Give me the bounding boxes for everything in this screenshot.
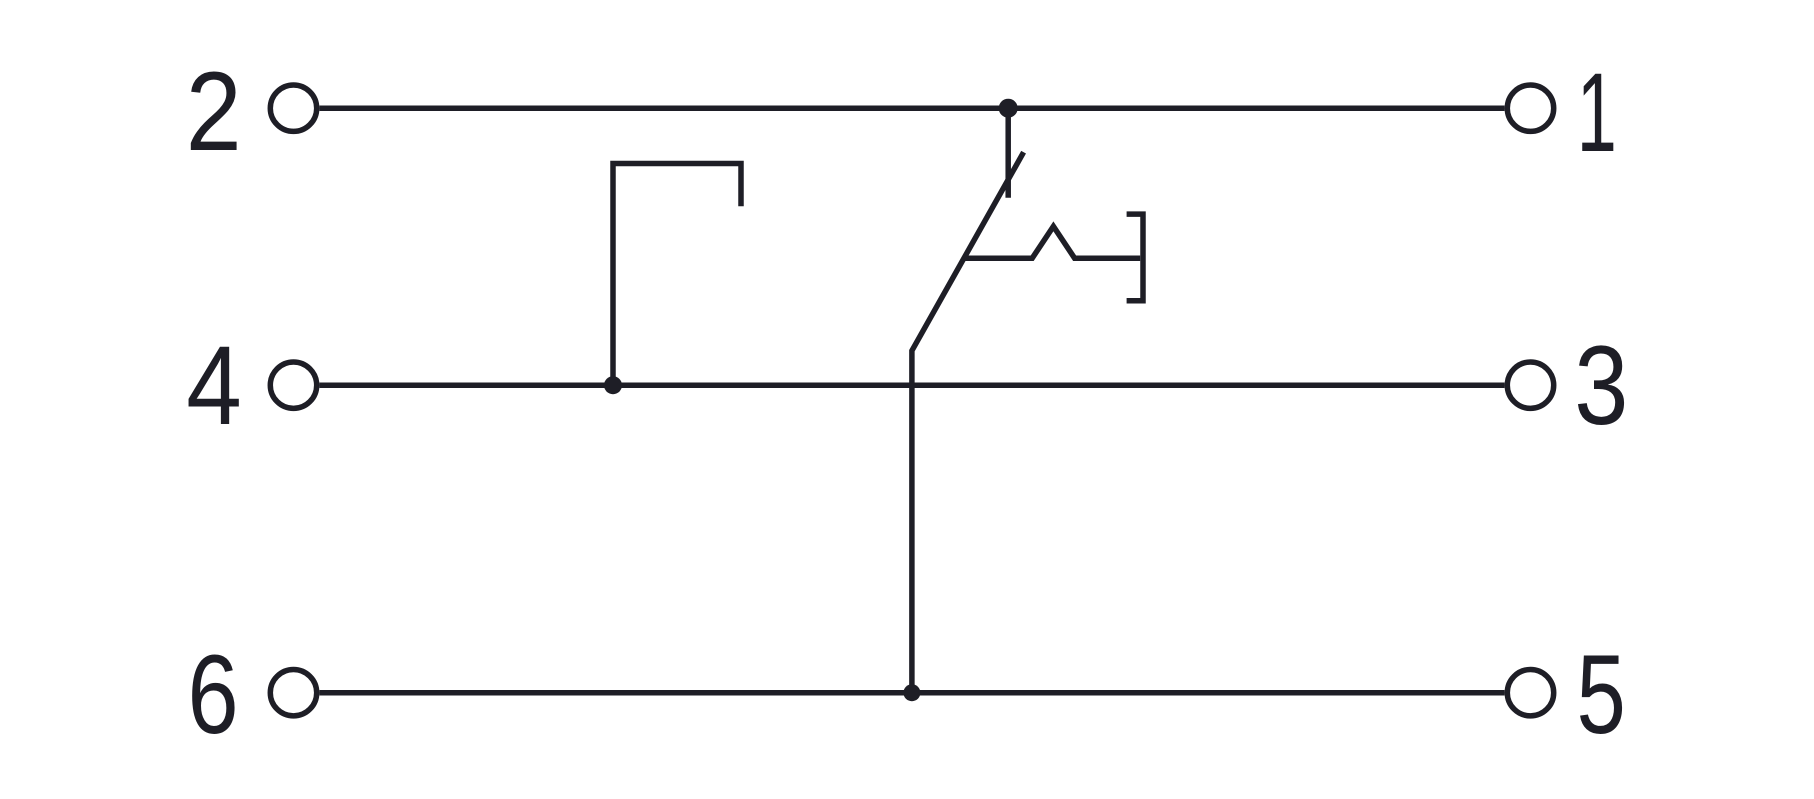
terminal circle 3 (1507, 362, 1553, 408)
terminal circle 2 (270, 85, 316, 131)
svg-text:3: 3 (1574, 322, 1628, 448)
switch blade to node 5 (912, 152, 1024, 693)
actuator bracket (1127, 214, 1143, 301)
terminal circle 1 (1507, 85, 1553, 131)
terminal circle 5 (1507, 670, 1553, 716)
svg-text:6: 6 (188, 631, 239, 757)
svg-text:2: 2 (186, 48, 242, 174)
terminal circle 4 (270, 362, 316, 408)
switch stub wire from top node (1005, 108, 1011, 198)
junction dot on wire 6-5 (903, 684, 920, 701)
interlock hook wire from node 4 (613, 164, 741, 386)
wire 2-1 (320, 105, 1505, 111)
wire 6-5 (320, 690, 1505, 696)
junction dot on wire 4-3 (604, 376, 622, 394)
terminal circle 6 (270, 670, 316, 716)
actuator spring link (964, 226, 1140, 258)
svg-text:5: 5 (1577, 631, 1626, 757)
svg-text:1: 1 (1577, 49, 1617, 175)
junction dot on wire 2-1 (999, 99, 1018, 118)
svg-text:4: 4 (186, 322, 242, 448)
wire 4-3 (320, 382, 1505, 388)
